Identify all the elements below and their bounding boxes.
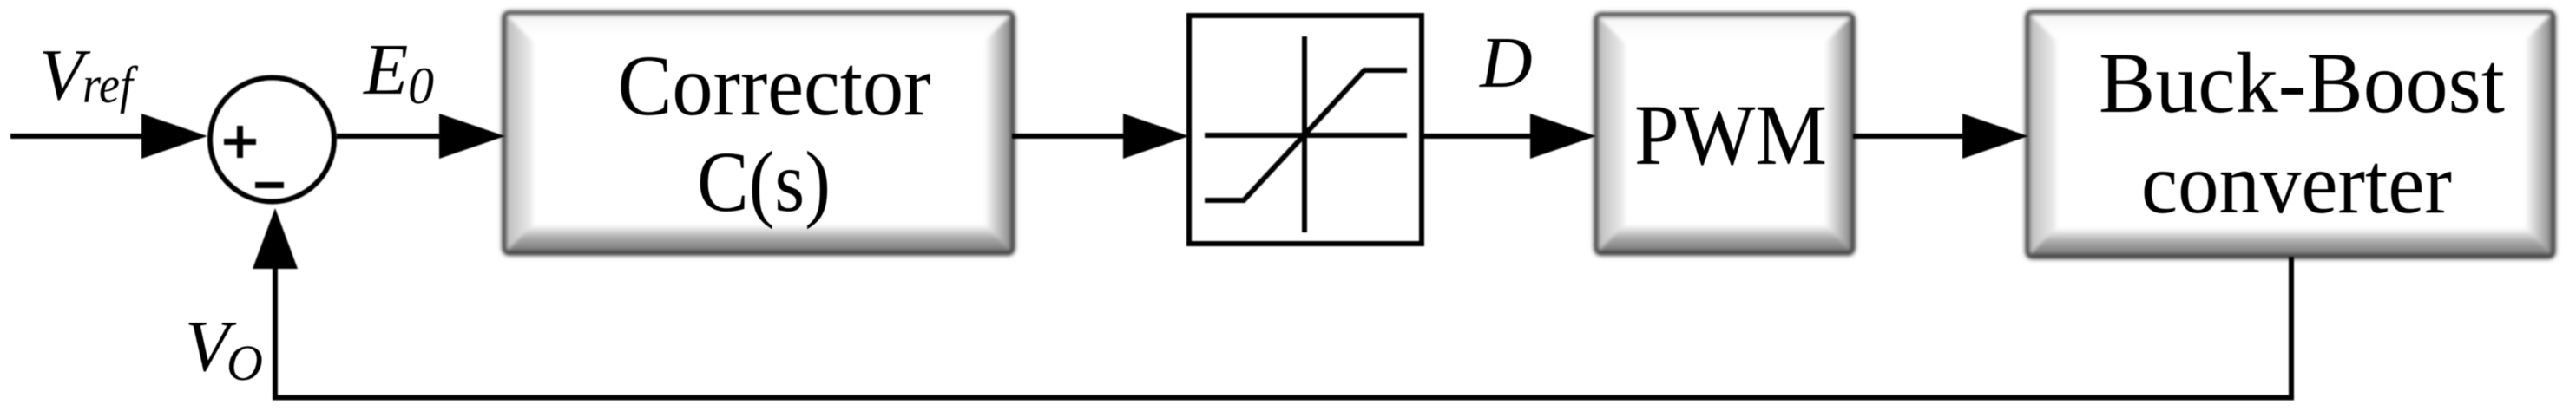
svg-text:E: E [363,29,408,110]
svg-text:ref: ref [82,56,139,114]
svg-text:converter: converter [2141,135,2452,232]
svg-text:C(s): C(s) [697,134,831,230]
svg-text:Buck-Boost: Buck-Boost [2099,35,2505,131]
svg-text:0: 0 [408,57,434,114]
svg-text:D: D [1479,23,1533,103]
svg-text:O: O [227,335,263,391]
svg-text:PWM: PWM [1634,87,1827,183]
svg-text:Corrector: Corrector [618,37,931,134]
